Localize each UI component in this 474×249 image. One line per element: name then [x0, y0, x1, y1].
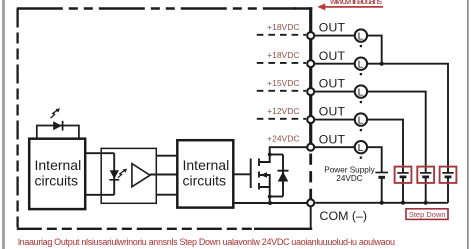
svg-text:Internal: Internal: [35, 157, 82, 173]
svg-text:L: L: [358, 87, 364, 99]
svg-text:+18VDC: +18VDC: [267, 50, 299, 60]
svg-text:Power Supply: Power Supply: [324, 165, 375, 174]
svg-text:wiwuvnlnaouans: wiwuvnlnaouans: [329, 0, 383, 6]
svg-text:L: L: [358, 31, 364, 43]
svg-text:Step Down: Step Down: [409, 210, 446, 219]
svg-text:circuits: circuits: [183, 173, 227, 189]
svg-text:+15VDC: +15VDC: [267, 78, 299, 88]
svg-text:circuits: circuits: [35, 173, 79, 189]
svg-text:OUT: OUT: [319, 132, 346, 146]
svg-text:+24VDC: +24VDC: [267, 134, 299, 144]
svg-text:+18VDC: +18VDC: [267, 22, 299, 32]
svg-text:COM (–): COM (–): [320, 209, 368, 223]
svg-text:lnaauriag Output nlsiusariulwr: lnaauriag Output nlsiusariulwrinoriu ann…: [18, 237, 395, 247]
svg-text:L: L: [358, 59, 364, 71]
svg-text:OUT: OUT: [319, 77, 346, 91]
svg-text:24VDC: 24VDC: [336, 174, 362, 183]
svg-text:+12VDC: +12VDC: [267, 106, 299, 116]
svg-text:L: L: [358, 142, 364, 154]
svg-text:Internal: Internal: [183, 157, 230, 173]
svg-text:OUT: OUT: [319, 21, 346, 35]
svg-text:OUT: OUT: [319, 105, 346, 119]
svg-text:OUT: OUT: [319, 49, 346, 63]
svg-text:L: L: [358, 115, 364, 127]
